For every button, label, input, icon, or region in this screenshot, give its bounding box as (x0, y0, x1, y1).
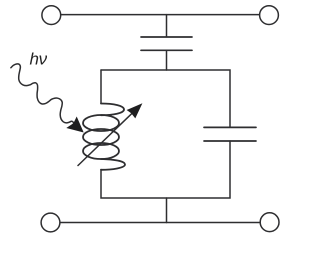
svg-text:hν: hν (30, 49, 48, 68)
